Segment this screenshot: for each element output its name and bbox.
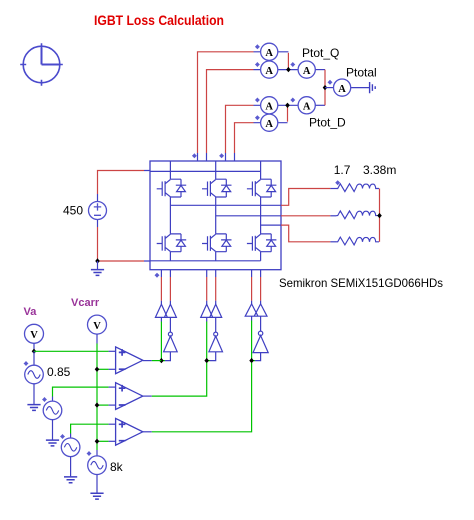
IGBT bridge subsystem box	[150, 161, 281, 270]
sine source 3	[61, 438, 80, 457]
svg-text:0.85: 0.85	[47, 365, 71, 379]
svg-text:Semikron SEMiX151GD066HDs: Semikron SEMiX151GD066HDs	[279, 276, 443, 290]
svg-text:Ptot_Q: Ptot_Q	[302, 46, 339, 60]
svg-text:A: A	[265, 48, 273, 59]
gate group 2 port stubs	[207, 270, 216, 305]
star A7 input	[328, 80, 333, 85]
svg-text:A: A	[338, 84, 346, 95]
leg2 collector feed	[215, 161, 217, 179]
svg-text:A: A	[303, 66, 311, 77]
DC+ rail inside box	[150, 170, 261, 172]
clock (simulation time) symbol	[20, 43, 63, 86]
wire Va to comparator1 plus	[34, 350, 109, 352]
wire Vcarr meter stub	[96, 334, 98, 343]
wire DC+ from source to box	[98, 171, 151, 202]
comparator 2	[116, 383, 143, 410]
RL branch 2	[337, 211, 380, 219]
leg3 collector feed	[260, 161, 262, 179]
ammeter A7 Ptotal	[334, 79, 351, 96]
svg-text:V: V	[30, 330, 38, 341]
svg-text:V: V	[93, 321, 101, 332]
node Va junction	[32, 349, 37, 354]
voltmeter Va	[25, 324, 44, 343]
wire comp1 output	[143, 360, 152, 362]
gate group 1 port stubs	[161, 270, 170, 305]
node Vcarr comp2 tee	[95, 402, 100, 407]
buffer pair group 2	[201, 304, 222, 317]
inverter group 1	[169, 317, 171, 332]
wire buffer1 input green	[160, 317, 162, 321]
ammeter A1	[261, 43, 278, 60]
svg-text:IGBT Loss Calculation: IGBT Loss Calculation	[94, 12, 224, 28]
node gate group2 junction	[204, 358, 209, 363]
leg1 phase connection	[169, 197, 171, 234]
sine source 2	[43, 401, 62, 420]
wire phase C to RL branch 3	[281, 225, 330, 242]
star sine source Va	[24, 361, 29, 366]
svg-text:3.38m: 3.38m	[363, 163, 396, 177]
star port3 top	[219, 153, 224, 158]
wire sine3 to comp3 plus	[70, 434, 72, 439]
buffer pair group 3	[245, 304, 267, 316]
ground sine2	[46, 440, 59, 446]
star A5 input	[255, 115, 260, 120]
node junction A1+A2	[286, 67, 291, 72]
RL branch 1	[337, 184, 380, 192]
node gate group3 junction	[249, 358, 254, 363]
IGBT Q5 top leg3	[247, 179, 276, 197]
ammeter A4	[261, 97, 278, 114]
ground sine3	[64, 477, 77, 483]
star sine source 3	[60, 434, 65, 439]
wire sine Va to ground	[33, 384, 35, 404]
star carrier source	[87, 451, 92, 456]
wire comp3 output	[143, 431, 152, 433]
wire comp2 output	[143, 395, 152, 397]
wire Vcarr to comp1 minus	[97, 368, 109, 370]
node gate group1 junction	[159, 358, 164, 363]
wire Vcarr vertical net	[96, 344, 98, 451]
ammeter A6 Ptot_D	[298, 97, 315, 114]
IGBT Q4 bottom leg2	[202, 234, 232, 252]
wire DC- from source to box and ground	[98, 220, 151, 261]
wire Va meter to junction	[33, 343, 35, 351]
IGBT Q6 bottom leg3	[247, 234, 276, 252]
RL branch 3	[337, 237, 380, 245]
node Vcarr comp3 tee	[95, 439, 100, 444]
phase A line	[170, 204, 281, 206]
leg3 emitter to rail	[260, 252, 262, 261]
star A1 input	[255, 44, 260, 49]
wire sine2 to comp2 plus	[52, 397, 54, 402]
svg-text:Va: Va	[24, 306, 38, 318]
IGBT Q1 top leg1	[157, 179, 187, 197]
star RL branch 1	[335, 180, 340, 185]
svg-text:A: A	[265, 119, 273, 130]
svg-text:1.7: 1.7	[334, 163, 351, 177]
gate group 3 port stubs	[252, 270, 261, 305]
wire phase A to RL branch 1	[281, 189, 330, 206]
star A3 input	[290, 62, 295, 67]
inverter group 3	[260, 316, 262, 331]
wire from box top port2 to ammeter A2	[207, 70, 261, 161]
leg1 emitter to rail	[169, 252, 171, 261]
ground carrier	[90, 493, 103, 499]
buffer pair group 1	[155, 304, 176, 317]
ammeter A3 Ptot_Q	[298, 61, 315, 78]
phase C line	[261, 224, 281, 226]
svg-text:8k: 8k	[110, 460, 124, 474]
star A6 input	[290, 98, 295, 103]
DC- rail inside box	[150, 260, 261, 262]
wire Vcarr to comp3 minus	[97, 440, 109, 442]
ammeter A5	[261, 114, 278, 131]
sine source Va	[25, 365, 44, 384]
wire junction down to sine source Va	[33, 351, 35, 365]
comparator 3	[116, 418, 143, 445]
leg2 phase connection	[215, 197, 217, 234]
star A2 input	[255, 62, 260, 67]
node Vcarr comp1 tee	[95, 367, 100, 372]
wire sine3 to ground	[70, 457, 72, 477]
leg3 phase connection	[260, 197, 262, 234]
wire sine2 to ground	[52, 420, 54, 440]
wire buffer3 input green	[251, 316, 253, 320]
sine source carrier 8k	[88, 456, 107, 475]
wire Vcarr stub to carrier source	[96, 450, 98, 456]
IGBT Q2 bottom leg1	[157, 234, 187, 252]
ground DC link	[97, 261, 99, 269]
wire RL common vertical	[379, 189, 381, 242]
wire buffer2 input green	[206, 317, 208, 321]
voltmeter Vcarr	[88, 315, 107, 334]
wire carrier to ground	[96, 475, 98, 493]
leg2 emitter to rail	[215, 252, 217, 261]
ground sine Va	[27, 405, 40, 411]
node Ptotal junction	[323, 85, 328, 90]
node junction A4+A5	[285, 103, 290, 108]
ammeter A2	[261, 61, 278, 78]
svg-text:Ptot_D: Ptot_D	[309, 115, 346, 129]
wire from box top port3 to ammeter A4	[226, 105, 261, 161]
voltage source V_dc 450	[89, 202, 107, 220]
star port1 top	[192, 153, 197, 158]
wire A6 output up to Ptotal junction	[315, 104, 325, 106]
node DC- junction	[95, 258, 100, 263]
svg-text:A: A	[265, 102, 273, 113]
svg-text:A: A	[265, 66, 273, 77]
svg-text:Vcarr: Vcarr	[71, 297, 100, 309]
wire phase B to RL branch 2	[281, 215, 330, 217]
wire from box top port1 to ammeter A1	[198, 52, 261, 161]
star gate port 1	[155, 273, 160, 278]
phase B line	[216, 215, 281, 217]
terminator	[370, 82, 376, 93]
wire A7 output to terminator	[351, 87, 369, 89]
star sine source 2	[42, 397, 47, 402]
svg-text:A: A	[303, 102, 311, 113]
inverter group 2	[215, 317, 217, 332]
node RL star point	[377, 213, 382, 218]
svg-text:Ptotal: Ptotal	[346, 66, 377, 80]
IGBT Q3 top leg2	[202, 179, 232, 197]
wire from box top port4 to ammeter A5	[235, 123, 261, 161]
wire A1 A2 outputs to junction	[278, 52, 298, 70]
wire A3 output down to Ptotal junction	[315, 69, 325, 71]
wire A4 A5 outputs to junction	[278, 105, 298, 122]
leg1 collector feed	[169, 161, 171, 179]
comparator 1	[116, 347, 143, 374]
wire junction to A7	[325, 87, 334, 89]
svg-text:450: 450	[63, 204, 83, 218]
star A4 input	[255, 98, 260, 103]
wire Vcarr to comp2 minus	[97, 404, 109, 406]
